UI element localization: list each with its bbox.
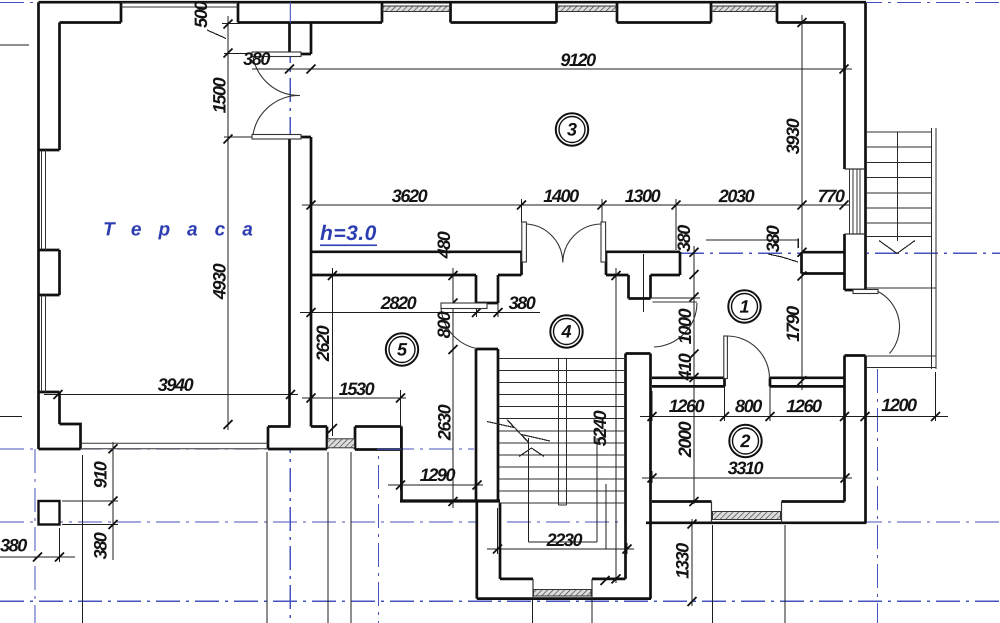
svg-text:380: 380 <box>763 225 783 252</box>
svg-text:3: 3 <box>567 120 577 140</box>
svg-text:2820: 2820 <box>380 293 417 313</box>
svg-text:4930: 4930 <box>209 263 229 300</box>
svg-text:2620: 2620 <box>313 325 333 362</box>
svg-text:800: 800 <box>434 311 454 338</box>
svg-text:1500: 1500 <box>209 77 229 113</box>
svg-text:800: 800 <box>735 396 762 416</box>
svg-text:2230: 2230 <box>546 530 583 550</box>
svg-text:380: 380 <box>0 535 27 555</box>
svg-text:1: 1 <box>739 297 749 317</box>
svg-text:3620: 3620 <box>392 186 428 206</box>
svg-text:3930: 3930 <box>783 118 803 154</box>
svg-text:1260: 1260 <box>669 396 705 416</box>
svg-text:h=3.0: h=3.0 <box>320 222 377 245</box>
svg-text:4: 4 <box>560 322 571 342</box>
svg-text:770: 770 <box>818 186 845 206</box>
svg-text:1400: 1400 <box>543 186 579 206</box>
svg-text:3310: 3310 <box>728 458 764 478</box>
svg-text:2: 2 <box>739 431 750 451</box>
svg-text:380: 380 <box>509 293 536 313</box>
svg-text:380: 380 <box>90 532 110 559</box>
svg-text:9120: 9120 <box>560 50 596 70</box>
svg-text:5: 5 <box>397 339 408 359</box>
svg-text:1200: 1200 <box>881 395 917 415</box>
svg-text:1300: 1300 <box>625 186 661 206</box>
svg-text:Тераса: Тераса <box>103 219 270 240</box>
svg-text:5240: 5240 <box>590 410 610 446</box>
svg-text:2630: 2630 <box>434 404 454 441</box>
svg-text:3940: 3940 <box>158 375 194 395</box>
svg-text:380: 380 <box>243 49 270 69</box>
svg-text:1290: 1290 <box>420 465 456 485</box>
svg-text:410: 410 <box>675 353 695 381</box>
svg-text:1000: 1000 <box>675 308 695 344</box>
svg-text:480: 480 <box>434 231 454 259</box>
svg-text:1530: 1530 <box>339 379 375 399</box>
svg-text:1260: 1260 <box>786 396 822 416</box>
svg-text:2030: 2030 <box>718 186 755 206</box>
svg-text:380: 380 <box>674 225 694 252</box>
svg-text:1330: 1330 <box>672 543 692 579</box>
svg-text:910: 910 <box>90 461 110 488</box>
svg-text:500: 500 <box>191 1 211 28</box>
svg-text:1790: 1790 <box>783 306 803 342</box>
svg-text:2000: 2000 <box>675 421 695 458</box>
